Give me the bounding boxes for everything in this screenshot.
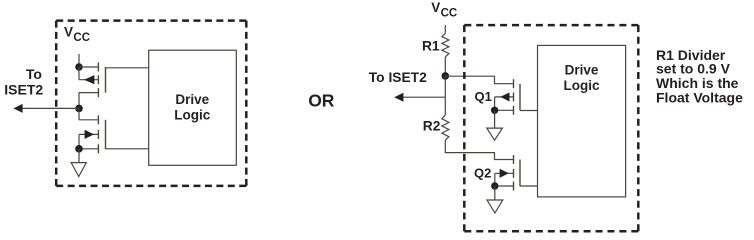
resistor R2 [442,115,449,140]
junction dot: divider node [442,72,450,80]
Drive Logic box (left) [149,50,237,165]
wire: Q1 gate lead to Drive Logic [520,110,538,112]
svg-text:To ISET2: To ISET2 [369,70,427,85]
junction dot: Q1 source [491,107,498,114]
wire: R1 to divider node [444,57,446,76]
svg-text:Drive: Drive [565,63,599,78]
svg-text:OR: OR [308,91,335,111]
svg-text:V: V [64,25,73,40]
svg-text:Float Voltage: Float Voltage [656,90,743,106]
wire: NMOS gate lead to Drive Logic [106,148,149,150]
junction dot: Vcc / source of PMOS [75,63,83,71]
svg-text:R1: R1 [422,38,440,53]
transistor Q2 (lower, right circuit) [495,155,520,191]
transistor Q1 (upper, right circuit) [495,79,520,115]
svg-text:CC: CC [73,32,90,44]
wire: Q2 gate lead to Drive Logic [520,185,538,187]
svg-text:V: V [431,0,440,15]
svg-text:ISET2: ISET2 [4,82,43,98]
svg-text:Q1: Q1 [474,89,491,104]
Drive Logic box (right) [538,45,626,197]
svg-text:To: To [26,66,42,82]
wire with arrow to ISET2 (right circuit) [401,96,445,98]
svg-text:Logic: Logic [174,107,210,122]
output node junction dot [75,105,83,113]
ground symbol (left circuit) [71,163,86,177]
wire: PMOS gate lead to Drive Logic [106,67,149,69]
transistor PMOS (upper, left circuit) [79,63,106,98]
wire: Vcc down to node [78,54,80,67]
junction dot: Q2 source [491,182,498,189]
wire: Q1 source to ground [494,110,496,128]
wire: source down to ground [78,149,80,163]
junction dot: NMOS source / ground [75,145,83,153]
dashed enclosure box (right circuit) [464,25,638,231]
svg-text:Drive: Drive [175,92,209,107]
wire with arrow to ISET2 (left circuit) [20,107,79,109]
svg-text:R2: R2 [423,119,441,134]
dashed enclosure box (left circuit) [56,21,246,186]
wire: R2 down and over to Q2 drain [445,140,513,159]
wire: Q2 source to ground [494,186,496,200]
wire: divider node over to Q1 drain [445,76,513,84]
wire: Vcc down to R1 [444,25,446,33]
resistor R1 [442,33,449,57]
transistor NMOS (lower, left circuit) [79,115,106,153]
wire: PMOS drain down to output node [79,93,98,109]
ground symbol (Q2) [487,200,503,213]
svg-text:CC: CC [441,8,458,20]
svg-text:Q2: Q2 [474,165,491,180]
ground symbol (Q1) [487,128,503,140]
wire: output node down to NMOS drain [78,108,80,119]
svg-text:Logic: Logic [564,78,600,93]
wire: divider node down through arrow tee to R2 [444,76,446,115]
